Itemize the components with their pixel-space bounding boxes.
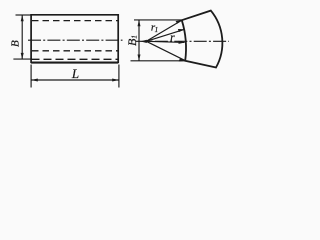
technical drawing: flat strip (left view) and curled fan-shaped blank (right view) [0,0,229,99]
radius leader r1 (arrow on inner arc, upper) [146,29,184,41]
dimension B: extension lines [16,14,32,16]
lower hidden (dashed) line [32,50,118,52]
dimension L: extension lines [30,65,32,88]
radius leader r (arrow on inner arc at axis height) [146,41,184,42]
centre axis line (left view) [28,39,123,41]
svg-text:r: r [170,32,175,44]
upper hidden (dashed) line [32,20,118,22]
leader to bottom inner corner of fan [146,41,185,61]
inner seam hidden line [32,58,118,60]
svg-text:B: B [9,40,21,47]
right view: axis line [136,40,230,42]
left view: rectangle outline of strip [31,15,118,63]
dimension L: dimension line with arrows [31,79,118,81]
svg-text:L: L [71,66,79,81]
dimension B: dimension line with arrows [21,15,23,59]
small left arrow on axis at B1 line [140,40,147,43]
leader to top inner corner of fan [146,20,182,41]
dimension B1: extension lines [134,19,182,21]
dimension B1: dimension line with arrows [138,20,140,61]
bottom edge thickening [31,62,118,64]
fan-shaped curled blank outline [182,11,223,68]
